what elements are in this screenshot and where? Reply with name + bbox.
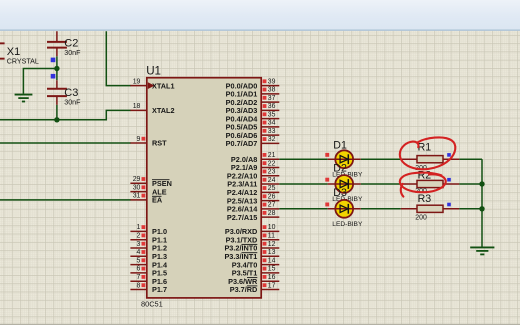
- wire: resistor R3 to right bus: [459, 208, 482, 210]
- svg-text:27: 27: [268, 202, 276, 209]
- svg-text:39: 39: [268, 78, 276, 85]
- svg-text:30nF: 30nF: [64, 98, 81, 106]
- pin 9 (RST) left stub: [130, 136, 146, 143]
- pin label P0.7/AD7: [226, 139, 258, 148]
- pin label P2.3/A11: [227, 180, 257, 189]
- pin 5 (P1.4) left stub: [130, 257, 146, 264]
- svg-text:CRYSTAL: CRYSTAL: [7, 58, 39, 66]
- pin label P1.6: [152, 277, 167, 286]
- wire: RST net from left edge to pin 9: [0, 142, 131, 144]
- wire: cap junction to ground: [23, 69, 57, 94]
- pin label P1.7: [152, 285, 167, 294]
- pin 3 (P1.2) left stub: [130, 241, 146, 248]
- microcontroller U1 (80C51) body: [147, 78, 261, 298]
- pin label P1.2: [152, 244, 167, 253]
- pin label ALE: [152, 187, 167, 196]
- svg-text:25: 25: [268, 185, 276, 192]
- pin 15 (P3.5/T1) right stub: [261, 266, 279, 273]
- pin 13 (P3.3/INT1) right stub: [261, 249, 279, 256]
- pin label P0.1/AD1: [226, 90, 258, 99]
- svg-text:14: 14: [268, 257, 276, 264]
- LED D2 (LED-BIBY): [328, 175, 361, 193]
- wire: EA net from left edge to pin 31: [0, 199, 131, 201]
- wire: LED D1 to resistor R1: [361, 158, 401, 160]
- resistor R2 body: [401, 180, 459, 187]
- pin label P2.2/A10: [227, 171, 257, 180]
- pin 22 (P2.1/A9) right stub: [261, 160, 279, 167]
- blue marker square right of R2: [447, 178, 451, 182]
- pin label XTAL2: [152, 106, 175, 115]
- svg-text:36: 36: [268, 103, 276, 110]
- wire: resistor R2 to right bus: [459, 183, 482, 185]
- pin label P1.3: [152, 252, 167, 261]
- wire: pin 27 to LED D3: [279, 208, 327, 210]
- pin label RST: [152, 139, 167, 148]
- pin 27 (P2.6/A14) right stub: [261, 202, 279, 209]
- pin label P2.7/A15: [227, 213, 257, 222]
- svg-text:28: 28: [268, 210, 276, 217]
- blue marker square right of R1: [447, 153, 451, 157]
- wire: C3 bottom to bottom net: [56, 105, 58, 120]
- svg-text:32: 32: [268, 136, 276, 143]
- svg-text:P3.7/RD: P3.7/RD: [230, 285, 258, 294]
- pin 14 (P3.4/T0) right stub: [261, 257, 279, 264]
- svg-text:21: 21: [268, 152, 276, 159]
- junction node on bottom wire: [54, 117, 59, 122]
- pin 18 (XTAL2) left stub: [130, 103, 146, 110]
- svg-text:200: 200: [415, 214, 427, 221]
- pin label P3.6/WR: [228, 277, 258, 286]
- svg-text:EA: EA: [152, 196, 163, 205]
- pin 38 (P0.1/AD1) right stub: [261, 87, 279, 94]
- pin 6 (P1.5) left stub: [130, 266, 146, 273]
- svg-text:R1: R1: [418, 142, 432, 154]
- svg-text:6: 6: [137, 266, 141, 273]
- svg-text:31: 31: [133, 193, 141, 200]
- red annotation scribble around R2: [400, 173, 446, 197]
- pin label P3.4/T0: [232, 260, 258, 269]
- pin 24 (P2.3/A11) right stub: [261, 177, 279, 184]
- svg-text:R3: R3: [418, 193, 432, 205]
- pin 7 (P1.6) left stub: [130, 274, 146, 281]
- wire: resistor R1 to right bus: [459, 158, 482, 160]
- LED D1 (LED-BIBY): [328, 150, 361, 168]
- svg-text:D2: D2: [333, 162, 347, 174]
- pin 2 (P1.1) left stub: [130, 233, 146, 240]
- pin label P2.1/A9: [231, 163, 257, 172]
- svg-text:P0.7/AD7: P0.7/AD7: [226, 139, 258, 148]
- junction node bus/R3: [479, 206, 484, 211]
- pin label P2.0/A8: [231, 155, 257, 164]
- pin 25 (P2.4/A12) right stub: [261, 185, 279, 192]
- pin label P0.3/AD3: [226, 106, 258, 115]
- wire: XTAL1 net vertical from top + to pin 19: [106, 31, 131, 85]
- svg-text:10: 10: [268, 224, 276, 231]
- capacitor C2: [47, 31, 67, 56]
- red annotation scribble around R1: [400, 137, 456, 169]
- red marker square left of LED D3: [325, 203, 329, 207]
- svg-text:16: 16: [268, 274, 276, 281]
- wire: LED D2 to resistor R2: [361, 183, 401, 185]
- pin 21 (P2.0/A8) right stub: [261, 152, 279, 159]
- LED D3 (LED-BIBY): [328, 200, 361, 218]
- pin label PSEN: [152, 179, 172, 188]
- svg-text:RST: RST: [152, 139, 167, 148]
- svg-text:35: 35: [268, 111, 276, 118]
- svg-text:34: 34: [268, 120, 276, 127]
- pin 26 (P2.5/A13) right stub: [261, 193, 279, 200]
- svg-text:30: 30: [133, 184, 141, 191]
- pin label XTAL1: [152, 81, 175, 90]
- svg-text:LED-BIBY: LED-BIBY: [332, 221, 363, 228]
- capacitor C3: [47, 80, 67, 105]
- svg-text:13: 13: [268, 249, 276, 256]
- pin label P3.7/RD: [230, 285, 258, 294]
- pin 37 (P0.2/AD2) right stub: [261, 95, 279, 102]
- pin 29 (PSEN) left stub: [130, 176, 146, 183]
- pin label P1.0: [152, 227, 167, 236]
- top window band: [0, 0, 520, 29]
- svg-text:22: 22: [268, 160, 276, 167]
- pin 17 (P3.7/RD) right stub: [261, 282, 279, 289]
- pin label P0.0/AD0: [226, 81, 258, 90]
- wire: XTAL2 net from pin 18 with jog down to long bottom wire: [0, 110, 131, 119]
- red marker square left of LED D1: [325, 153, 329, 157]
- svg-text:C2: C2: [64, 37, 78, 49]
- pin 31 (EA) left stub: [130, 193, 146, 200]
- pin 11 (P3.1/TXD) right stub: [261, 233, 279, 240]
- pin label P3.3/INT1: [224, 252, 257, 261]
- pin label P3.5/T1: [232, 269, 258, 278]
- svg-text:D1: D1: [333, 140, 347, 152]
- pin label P2.5/A13: [227, 196, 257, 205]
- pin 10 (P3.0/RXD) right stub: [261, 224, 279, 231]
- pin 4 (P1.3) left stub: [130, 249, 146, 256]
- svg-text:37: 37: [268, 95, 276, 102]
- pin label P0.6/AD6: [226, 131, 258, 140]
- blue marker square right of R3: [447, 203, 451, 207]
- svg-text:30nF: 30nF: [64, 49, 81, 57]
- pin label P3.2/INT0: [224, 244, 257, 253]
- pin label P0.2/AD2: [226, 98, 258, 107]
- svg-text:15: 15: [268, 266, 276, 273]
- resistor R3 body: [401, 205, 459, 212]
- pin 1 (P1.0) left stub: [130, 224, 146, 231]
- svg-text:9: 9: [137, 136, 141, 143]
- svg-text:8: 8: [137, 282, 141, 289]
- ground symbol left: [15, 95, 33, 102]
- svg-text:P2.7/A15: P2.7/A15: [227, 213, 257, 222]
- svg-text:4: 4: [137, 249, 141, 256]
- junction node bus/R2: [479, 181, 484, 186]
- wire: LED D3 to resistor R3: [361, 208, 401, 210]
- svg-text:1: 1: [137, 224, 141, 231]
- pin label P1.5: [152, 269, 167, 278]
- svg-text:X1: X1: [7, 46, 20, 58]
- clock arrow marker at XTAL1 pin: [148, 82, 155, 89]
- svg-text:3: 3: [137, 241, 141, 248]
- svg-text:80C51: 80C51: [141, 300, 163, 309]
- pin 16 (P3.6/WR) right stub: [261, 274, 279, 281]
- svg-text:38: 38: [268, 87, 276, 94]
- pin label P3.1/TXD: [226, 235, 258, 244]
- wire: right vertical bus to ground: [481, 159, 483, 247]
- svg-text:C3: C3: [64, 87, 78, 99]
- pin label P0.4/AD4: [226, 114, 259, 123]
- pin 30 (ALE) left stub: [130, 184, 146, 191]
- pin label P3.0/RXD: [225, 227, 257, 236]
- svg-text:U1: U1: [146, 65, 161, 78]
- svg-text:12: 12: [268, 241, 276, 248]
- junction node between caps: [54, 66, 59, 71]
- svg-text:19: 19: [133, 78, 141, 85]
- crystal X1 (cut off at left edge) plate marks: [0, 42, 5, 59]
- pin 19 (XTAL1) left stub: [130, 78, 146, 85]
- pin 36 (P0.3/AD3) right stub: [261, 103, 279, 110]
- blue marker square upper: [51, 58, 56, 63]
- wire: pin 24 to LED D2: [279, 183, 327, 185]
- pin 33 (P0.6/AD6) right stub: [261, 128, 279, 135]
- svg-text:29: 29: [133, 176, 141, 183]
- svg-text:18: 18: [133, 103, 141, 110]
- svg-text:XTAL2: XTAL2: [152, 106, 175, 115]
- svg-text:2: 2: [137, 233, 141, 240]
- pin label P2.6/A14: [227, 205, 258, 214]
- pin 32 (P0.7/AD7) right stub: [261, 136, 279, 143]
- svg-text:23: 23: [268, 169, 276, 176]
- svg-text:24: 24: [268, 177, 276, 184]
- pin label P2.4/A12: [227, 188, 257, 197]
- ground symbol right: [470, 247, 494, 254]
- svg-text:P1.7: P1.7: [152, 285, 167, 294]
- svg-text:11: 11: [268, 233, 275, 240]
- resistor R1 body: [401, 156, 459, 163]
- blue marker square lower: [51, 74, 56, 79]
- svg-text:7: 7: [137, 274, 141, 281]
- svg-text:XTAL1: XTAL1: [152, 81, 175, 90]
- wire: between C2 and C3: [56, 56, 58, 80]
- pin label EA: [152, 196, 163, 205]
- pin 39 (P0.0/AD0) right stub: [261, 78, 279, 85]
- svg-text:D3: D3: [333, 187, 347, 199]
- red marker square left of LED D2: [325, 178, 329, 182]
- svg-text:5: 5: [137, 257, 141, 264]
- pin 34 (P0.5/AD5) right stub: [261, 120, 279, 127]
- pin 28 (P2.7/A15) right stub: [261, 210, 279, 217]
- svg-text:33: 33: [268, 128, 276, 135]
- pin 12 (P3.2/INT0) right stub: [261, 241, 279, 248]
- pin label P0.5/AD5: [226, 123, 258, 132]
- svg-text:17: 17: [268, 282, 276, 289]
- pin 35 (P0.4/AD4) right stub: [261, 111, 279, 118]
- band bottom edge line: [0, 29, 520, 31]
- pin label P1.1: [152, 235, 167, 244]
- pin 23 (P2.2/A10) right stub: [261, 169, 279, 176]
- wire: pin 21 to LED D1: [279, 158, 327, 160]
- bottom crop edge line: [0, 324, 520, 325]
- pin 8 (P1.7) left stub: [130, 282, 146, 289]
- pin label P1.4: [152, 260, 168, 269]
- svg-text:26: 26: [268, 193, 276, 200]
